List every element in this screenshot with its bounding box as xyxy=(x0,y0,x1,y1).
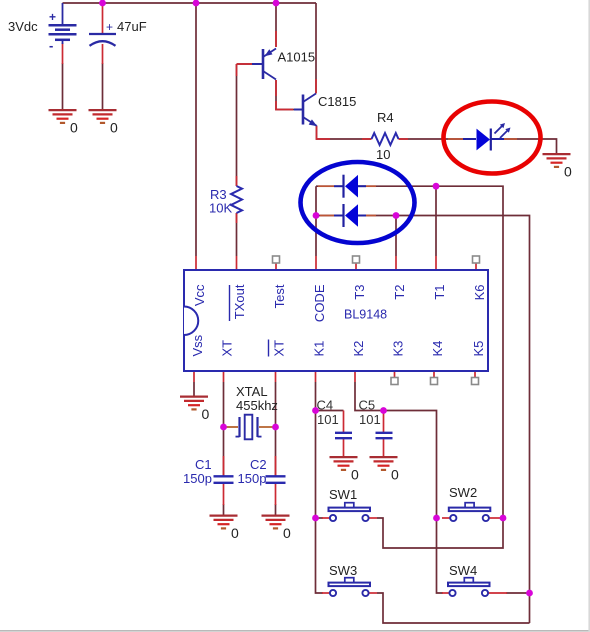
lead battery negative xyxy=(62,43,64,64)
svg-text:150p: 150p xyxy=(183,471,212,486)
wire LED to ground corner xyxy=(504,139,557,154)
stub C1815 collector xyxy=(315,79,317,94)
stub C1815 base xyxy=(276,101,293,110)
stub diode D2 left xyxy=(320,215,334,217)
svg-text:+: + xyxy=(106,20,113,34)
wire lower diode row right to SW4 column xyxy=(358,216,530,624)
wire T1 branch xyxy=(435,186,437,256)
svg-text:3Vdc: 3Vdc xyxy=(8,19,38,34)
capacitor C2 150p xyxy=(266,476,286,483)
lead C2 bottom xyxy=(275,484,277,506)
wire R4 to LED xyxy=(399,138,464,140)
wire A1015 base to R3 column xyxy=(237,64,253,186)
wire cap 47uF lower xyxy=(102,63,104,110)
switch SW1 xyxy=(329,503,371,521)
stub LED left xyxy=(448,138,463,140)
svg-text:T2: T2 xyxy=(392,285,407,300)
wire C2 ground lower xyxy=(275,504,277,515)
svg-text:10: 10 xyxy=(376,147,390,162)
node SW1 left xyxy=(312,515,319,522)
wire SW2 node down to SW4 left xyxy=(437,518,444,593)
stub diode D1 right xyxy=(366,185,376,187)
svg-text:C5: C5 xyxy=(359,398,376,413)
svg-text:TXout: TXout xyxy=(232,284,247,319)
svg-text:47uF: 47uF xyxy=(117,19,147,34)
pin stub TXout xyxy=(236,256,238,270)
stub A1015 collector xyxy=(275,80,277,96)
stub SW1 left xyxy=(322,517,330,519)
lead C4 top xyxy=(343,411,345,433)
lead C5 top xyxy=(383,411,385,433)
svg-text:XTAL: XTAL xyxy=(236,384,268,399)
node crystal left xyxy=(220,424,227,431)
pin stub Vcc xyxy=(195,256,197,270)
svg-text:A1015: A1015 xyxy=(278,50,316,65)
stub SW3 right xyxy=(369,592,377,594)
wire K1 column down to SW1 node xyxy=(315,382,317,518)
ground cap 47uF xyxy=(89,110,119,135)
frame bottom edge xyxy=(0,630,590,632)
pin stub K5 nc xyxy=(474,371,476,378)
svg-text:SW1: SW1 xyxy=(329,487,357,502)
switch SW3 xyxy=(329,578,371,596)
wire SW1 right to SW2 right loop xyxy=(377,518,503,548)
wire XT pin to crystal node and C1 xyxy=(223,382,225,476)
svg-text:Vss: Vss xyxy=(190,334,205,356)
stub SW1 right xyxy=(369,517,377,519)
wire C4 branch xyxy=(316,410,344,412)
svg-text:10K: 10K xyxy=(209,201,232,216)
svg-text:K1: K1 xyxy=(312,341,327,357)
svg-text:+: + xyxy=(49,10,56,24)
pin stub Test nc xyxy=(275,263,277,270)
ground C5 xyxy=(370,457,400,482)
no-connect square K5 xyxy=(472,378,479,385)
node C5 tap xyxy=(380,407,387,414)
op IC U1 BL9148 xyxy=(184,270,488,371)
node SW2 right xyxy=(500,515,507,522)
highlight ellipse red around LED xyxy=(444,102,541,174)
diode D1 upper IR xyxy=(334,175,366,198)
pin stub T3 nc xyxy=(355,263,357,270)
wire K2 to C5 node to SW2 column xyxy=(355,382,437,518)
lead C5 bottom xyxy=(383,439,385,457)
node crystal right xyxy=(272,424,279,431)
svg-text:SW3: SW3 xyxy=(329,563,357,578)
no-connect square T3 xyxy=(353,256,360,263)
svg-text:BL9148: BL9148 xyxy=(344,308,387,322)
switch SW2 xyxy=(449,503,491,521)
stub R3 bottom xyxy=(236,213,238,223)
pin stub T2 xyxy=(395,256,397,270)
wire upper diode row left, down to CODE pin xyxy=(316,186,334,256)
pin stub K1 xyxy=(315,371,317,382)
ground LED xyxy=(543,154,573,179)
svg-text:K6: K6 xyxy=(472,285,487,301)
LED D3 xyxy=(463,123,511,151)
stub diode D2 right xyxy=(366,215,376,217)
svg-text:455khz: 455khz xyxy=(236,398,278,413)
wire C1815 emitter to R4 xyxy=(317,126,372,140)
no-connect square K3 xyxy=(391,378,398,385)
stub diode D1 left xyxy=(318,185,334,187)
svg-text:T1: T1 xyxy=(432,285,447,300)
node T2 lower row xyxy=(393,212,400,219)
resistor R3 10K xyxy=(231,186,242,213)
pin overline XTbar xyxy=(268,340,270,357)
stub R4 right xyxy=(399,138,409,140)
wire K1 node down to SW3 left xyxy=(316,518,324,593)
stub R3 top xyxy=(236,176,238,186)
lead C2 top xyxy=(275,456,277,476)
ground Vss xyxy=(180,397,210,422)
wire R3 to TXout pin xyxy=(236,213,238,256)
stub LED right xyxy=(504,138,517,140)
node C4 tap xyxy=(312,407,319,414)
no-connect square K4 xyxy=(431,378,438,385)
svg-text:Test: Test xyxy=(272,284,287,308)
wire Vcc pin column xyxy=(195,3,197,256)
switch SW4 xyxy=(448,578,490,596)
crystal XTAL 455khz xyxy=(223,415,276,440)
node rail-A1015 xyxy=(273,0,280,6)
svg-text:K2: K2 xyxy=(351,341,366,357)
ground battery xyxy=(49,110,79,135)
wire SW3 right to bottom rail to SW4 node xyxy=(377,593,530,623)
svg-text:-: - xyxy=(49,38,53,53)
svg-text:SW2: SW2 xyxy=(449,485,477,500)
wire XTbar pin to crystal node and C2 xyxy=(275,382,277,476)
wire A1015 emitter to rail xyxy=(275,3,277,47)
wire C1 ground lower xyxy=(223,504,225,515)
ground C4 xyxy=(330,457,360,482)
svg-text:150p: 150p xyxy=(238,471,267,486)
node rail-Vcc xyxy=(193,0,200,6)
wire lower diode row left from node xyxy=(316,215,334,217)
no-connect square Test xyxy=(273,256,280,263)
highlight ellipse blue around diodes xyxy=(301,162,415,243)
capacitor C5 101 xyxy=(376,433,393,438)
pin stub XT xyxy=(223,371,225,382)
wire rail to C1815 collector xyxy=(315,3,317,93)
svg-text:C2: C2 xyxy=(250,457,267,472)
stub A1015 emitter xyxy=(275,31,277,47)
svg-text:C1: C1 xyxy=(195,457,212,472)
no-connect square K6 xyxy=(473,256,480,263)
ground C1 xyxy=(210,516,240,541)
svg-text:K4: K4 xyxy=(430,341,445,357)
lead C1 bottom xyxy=(223,484,225,506)
capacitor C4 101 xyxy=(335,433,352,438)
wire A1015 collector to C1815 base xyxy=(276,80,294,110)
lead cap 47uF bottom xyxy=(102,44,104,64)
stub C1815 emitter xyxy=(317,126,331,139)
wire T2 branch xyxy=(395,216,397,257)
svg-text:XT: XT xyxy=(220,340,235,357)
pin stub K4 nc xyxy=(433,371,435,378)
stub A1015 base xyxy=(237,64,253,76)
svg-text:K3: K3 xyxy=(391,341,406,357)
svg-text:101: 101 xyxy=(359,412,381,427)
diode D2 lower IR xyxy=(334,204,366,227)
svg-text:C4: C4 xyxy=(317,398,334,413)
pin overline TXout xyxy=(229,285,231,321)
node diode lower left xyxy=(313,212,320,219)
svg-text:101: 101 xyxy=(317,412,339,427)
pin stub K3 nc xyxy=(394,371,396,378)
lead C4 bottom xyxy=(343,439,345,457)
ground C2 xyxy=(262,516,292,541)
pin stub XTbar xyxy=(275,371,277,382)
pin stub CODE xyxy=(315,256,317,270)
stub SW2 left xyxy=(442,517,450,519)
wire VCC top rail xyxy=(63,2,317,4)
svg-text:K5: K5 xyxy=(471,341,486,357)
resistor R4 10 xyxy=(372,133,399,145)
pin stub T1 xyxy=(435,256,437,270)
node SW2 left xyxy=(433,515,440,522)
capacitor C1 150p xyxy=(214,476,234,483)
lead C1 top xyxy=(223,456,225,476)
svg-text:T3: T3 xyxy=(352,285,367,300)
wire battery negative lower xyxy=(62,63,64,110)
stub SW4 right xyxy=(488,592,507,594)
stub SW3 left xyxy=(322,592,330,594)
transistor Q1 A1015 pnp xyxy=(252,49,276,80)
frame right edge xyxy=(588,0,590,632)
lead cap 47uF top xyxy=(102,3,104,33)
transistor Q2 C1815 npn xyxy=(294,94,317,127)
wire Vss pin to ground xyxy=(193,382,195,396)
stub SW2 right xyxy=(489,517,503,519)
battery BT 3Vdc xyxy=(49,3,77,53)
svg-text:R4: R4 xyxy=(377,110,394,125)
wire SW1 left stub xyxy=(316,517,324,519)
svg-text:Vcc: Vcc xyxy=(192,284,207,306)
stub R4 left xyxy=(362,138,372,140)
pin stub K6 nc xyxy=(475,263,477,270)
node SW4 right xyxy=(526,590,533,597)
svg-text:CODE: CODE xyxy=(312,284,327,322)
stub SW4 left xyxy=(442,592,449,594)
svg-text:SW4: SW4 xyxy=(449,563,477,578)
capacitor 47uF xyxy=(89,20,116,46)
pin stub Vss xyxy=(193,371,195,382)
wire upper diode row right to SW2 column xyxy=(358,186,503,518)
node T1 upper row xyxy=(433,183,440,190)
pin stub K2 xyxy=(354,371,356,382)
node rail-cap xyxy=(99,0,106,6)
svg-text:XT: XT xyxy=(272,340,287,357)
svg-text:C1815: C1815 xyxy=(318,94,356,109)
